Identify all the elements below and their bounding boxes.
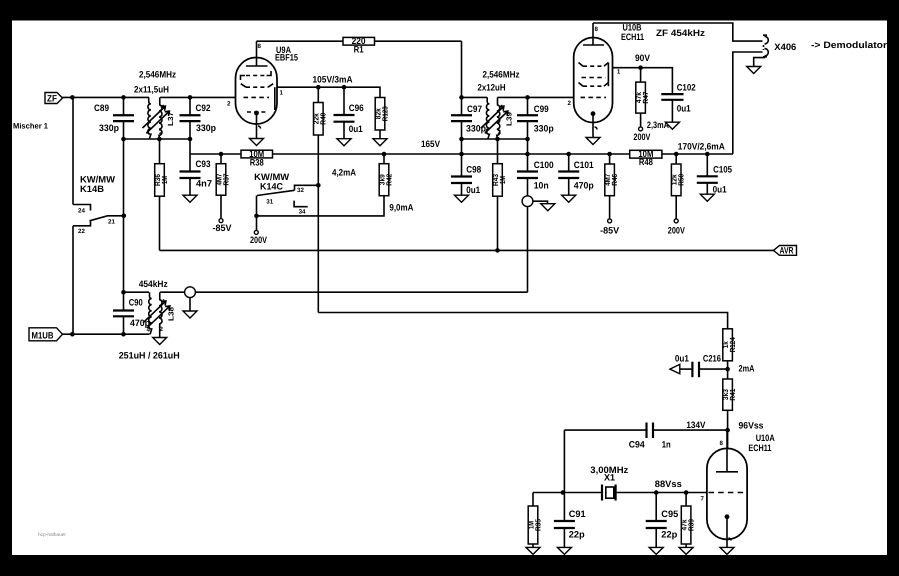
svg-text:8: 8 <box>258 43 262 50</box>
svg-text:C90: C90 <box>129 297 143 307</box>
transformer L37 2x11,5uH <box>143 97 176 139</box>
label 9,0mA <box>389 203 413 213</box>
ground under C101 <box>562 195 576 202</box>
wire: T1 bottom rail y=139 <box>124 138 191 140</box>
wire: U10B anode wire y=23 <box>593 23 763 41</box>
svg-text:C89: C89 <box>94 103 109 113</box>
resistor R42 3k9 <box>377 154 393 196</box>
svg-text:R47: R47 <box>641 92 650 104</box>
node junction M1UB/K14B <box>70 332 75 337</box>
ground at T3 testpoint <box>183 311 197 318</box>
wire: R38 wire from T1 <box>190 153 241 155</box>
svg-text:90V: 90V <box>635 53 651 63</box>
svg-text:0u1: 0u1 <box>675 354 689 364</box>
watermark hcp-halbauer <box>38 532 66 538</box>
svg-text:170V/2,6mA: 170V/2,6mA <box>678 142 725 152</box>
svg-text:C94: C94 <box>629 440 646 450</box>
svg-text:200V: 200V <box>668 225 686 235</box>
svg-text:1: 1 <box>162 104 166 111</box>
wire: M1UB rail y=334.2 <box>63 333 150 335</box>
wire: AVR rail y=250.4 <box>160 249 774 251</box>
resistor R39 47k <box>679 493 695 548</box>
svg-text:2: 2 <box>160 326 164 333</box>
svg-text:X406: X406 <box>774 42 796 52</box>
svg-text:ZF: ZF <box>47 93 57 103</box>
node junction T1 bottom right <box>188 137 193 142</box>
svg-text:330p: 330p <box>99 123 119 133</box>
terminal 200V under R47 <box>633 127 651 142</box>
svg-text:C105: C105 <box>713 165 732 175</box>
ground under T3 secondary <box>153 338 167 345</box>
svg-text:1: 1 <box>162 299 166 306</box>
terminal 200V under R50 <box>668 219 686 236</box>
svg-text:L39: L39 <box>505 112 514 126</box>
svg-text:R46: R46 <box>610 174 619 186</box>
wire: ZF to transformer T1 top rail y=97.4 <box>63 96 236 98</box>
capacitor C98 0u1 <box>451 164 481 195</box>
transformer L38 454kHz <box>143 292 176 337</box>
ground under C91 <box>557 547 571 554</box>
label -> Demodulator <box>811 40 887 50</box>
svg-text:4: 4 <box>485 130 489 137</box>
label 4,2mA <box>332 168 356 178</box>
svg-text:C102: C102 <box>677 83 696 93</box>
svg-text:K14B: K14B <box>80 184 104 194</box>
testpoint circle at T3 <box>185 287 196 311</box>
svg-text:R37: R37 <box>221 174 230 186</box>
node junction C89 top <box>121 95 126 100</box>
wire: 454kHz top rail y=292.2 <box>124 291 528 293</box>
capacitor C93 4n7 <box>180 154 213 195</box>
wire: U9A pin1 105V wire y=87.2 <box>277 87 380 97</box>
svg-text:-> Demodulator: -> Demodulator <box>811 40 887 50</box>
svg-text:X1: X1 <box>604 473 615 483</box>
svg-text:2,546MHz: 2,546MHz <box>483 70 520 80</box>
ground under U10A cathode <box>720 547 734 554</box>
node junction R47 top <box>638 65 643 70</box>
wire: X406 lower contact to 170V rail <box>733 52 763 154</box>
svg-text:C97: C97 <box>467 104 482 114</box>
capacitor C92 330p <box>180 103 217 133</box>
node junction R43 bottom on AVR rail <box>495 248 500 253</box>
node junction R46 top <box>607 152 612 157</box>
svg-text:C92: C92 <box>196 103 211 113</box>
svg-text:KW/MW: KW/MW <box>254 172 289 182</box>
svg-text:L38: L38 <box>167 307 176 321</box>
svg-text:8: 8 <box>595 26 599 33</box>
label 105V/3mA <box>313 75 353 85</box>
svg-text:32: 32 <box>297 187 304 194</box>
svg-text:ZF 454kHz: ZF 454kHz <box>656 28 705 38</box>
capacitor C101 470p <box>558 154 594 195</box>
svg-text:24: 24 <box>78 208 85 215</box>
svg-text:1M: 1M <box>498 176 507 184</box>
wire: 165V rail <box>273 153 734 155</box>
node junction C105 top <box>705 152 710 157</box>
resistor R37 4M7 <box>214 154 230 219</box>
node junction K14C 31 <box>254 214 259 219</box>
svg-text:C91: C91 <box>569 509 586 519</box>
svg-text:4: 4 <box>147 327 151 334</box>
svg-text:AVR: AVR <box>780 245 794 255</box>
resistor R43 1M <box>491 139 507 250</box>
switch K14C arm 31 <box>257 190 295 230</box>
flag M1UB <box>29 328 63 341</box>
svg-text:KW/MW: KW/MW <box>80 174 115 184</box>
label 2,3mA <box>647 120 669 130</box>
label U10B ECH11 <box>621 22 644 42</box>
capacitor C102 0u1 <box>661 83 695 123</box>
node junction K14C 32 tap <box>316 183 321 188</box>
node junction C100 on 165V rail <box>525 152 530 157</box>
svg-text:9,0mA: 9,0mA <box>389 203 413 213</box>
node junction C97 on 165V rail <box>459 152 464 157</box>
wire: C94 left leg down to oscillator line <box>563 430 565 492</box>
node junction T1 bottom left <box>121 137 126 142</box>
crystal X1 3,00MHz <box>602 473 616 501</box>
capacitor C90 470p <box>113 297 150 328</box>
ground under C98 <box>455 195 469 202</box>
svg-text:1M: 1M <box>160 176 169 184</box>
svg-text:200V: 200V <box>633 132 651 142</box>
resistor R48 10M <box>630 149 662 167</box>
resistor R41 3k3 <box>721 379 737 448</box>
svg-text:R38: R38 <box>250 157 264 167</box>
svg-text:0u1: 0u1 <box>713 185 727 195</box>
svg-text:251uH / 261uH: 251uH / 261uH <box>119 351 180 361</box>
svg-text:1: 1 <box>617 69 621 76</box>
node junction T1 bottom coil <box>157 137 162 142</box>
svg-text:R48: R48 <box>639 157 653 167</box>
node junction 134V <box>725 428 730 433</box>
svg-text:2x11,5uH: 2x11,5uH <box>134 85 169 95</box>
svg-text:EBF15: EBF15 <box>275 53 298 63</box>
resistor R1 220 <box>343 36 375 54</box>
wire: 88Vss oscillator line y=492.5 <box>533 492 707 494</box>
wire: C100 testpoint down to 454kHz rail <box>527 207 529 293</box>
svg-text:105V/3mA: 105V/3mA <box>313 75 353 85</box>
svg-text:ECH11: ECH11 <box>748 443 771 453</box>
svg-text:10n: 10n <box>534 181 549 191</box>
svg-text:21: 21 <box>108 219 115 226</box>
capacitor C216 0u1 <box>675 354 728 378</box>
svg-text:22p: 22p <box>569 530 585 540</box>
svg-text:2: 2 <box>227 101 231 108</box>
svg-text:8: 8 <box>720 440 724 447</box>
wire: 9,0mA wire y=215.9 <box>257 196 385 216</box>
svg-text:R39: R39 <box>686 519 695 531</box>
resistor R46 4M7 <box>603 154 619 219</box>
ground under U10B cathode <box>586 138 600 145</box>
node junction C96 top <box>342 85 347 90</box>
svg-text:C101: C101 <box>574 160 594 170</box>
svg-text:454kHz: 454kHz <box>139 279 168 289</box>
svg-text:0u1: 0u1 <box>677 104 691 114</box>
svg-text:2: 2 <box>498 129 502 136</box>
switch K14B contact 24 <box>73 205 91 215</box>
capacitor C94 1n <box>564 423 727 450</box>
terminal -85V under R46 <box>600 219 620 236</box>
ground X406 <box>747 67 761 74</box>
tube U10A ECH11 <box>701 430 748 547</box>
wire: C89/C90 column x=123.5 <box>123 97 125 334</box>
node junction R40 top <box>316 85 321 90</box>
svg-text:R123: R123 <box>380 106 389 121</box>
svg-text:C98: C98 <box>466 164 481 174</box>
capacitor C97 330p <box>451 104 486 134</box>
svg-text:R41: R41 <box>728 389 737 401</box>
svg-text:22p: 22p <box>661 530 677 540</box>
flag ZF <box>45 93 63 104</box>
node junction R50 top <box>674 152 679 157</box>
node junction C92 top <box>188 95 193 100</box>
svg-text:R42: R42 <box>384 174 393 186</box>
ground under C96 <box>337 139 351 146</box>
svg-text:M1UB: M1UB <box>32 330 54 340</box>
wire: C97 column x=461.5 <box>461 41 463 195</box>
testpoint circle under C100 <box>522 196 547 207</box>
label 2,546MHz <box>139 70 176 80</box>
label U9A EBF15 <box>275 45 298 63</box>
tube U9A EBF15 <box>227 41 284 138</box>
node junction C216 / R41 <box>725 367 730 372</box>
wire: X406 lower contact to ground <box>754 57 765 67</box>
svg-text:Mischer 1: Mischer 1 <box>13 122 49 131</box>
switch K14B contact 22 and arm <box>73 216 124 235</box>
label 251uH / 261uH <box>119 351 180 361</box>
node junction T2 bottom right <box>525 137 530 142</box>
ground under C93 <box>183 195 197 202</box>
svg-text:2: 2 <box>568 100 572 107</box>
svg-text:L37: L37 <box>166 112 175 126</box>
tube U10B ECH11 <box>568 23 621 138</box>
wire: K14B left vertical x=73 <box>72 97 74 334</box>
terminal -85V under R37 <box>213 219 233 234</box>
svg-text:470p: 470p <box>574 181 594 191</box>
node junction ZF/K14B branch <box>70 95 75 100</box>
wire: T2 bottom rail y=139 <box>462 138 528 140</box>
svg-text:K14C: K14C <box>260 181 283 191</box>
svg-text:1: 1 <box>280 90 284 97</box>
resistor R123 82k <box>373 98 389 139</box>
svg-text:2x12uH: 2x12uH <box>478 83 506 93</box>
resistor R124 1k <box>721 329 737 379</box>
label ZF 454kHz <box>656 28 705 38</box>
svg-text:C96: C96 <box>349 103 364 113</box>
svg-text:31: 31 <box>266 198 273 205</box>
svg-text:ECH11: ECH11 <box>621 32 644 42</box>
resistor R36 1M <box>153 139 169 250</box>
svg-text:U10A: U10A <box>756 433 775 443</box>
node junction C90 top <box>121 290 126 295</box>
wire: C99 column x=527.5 <box>527 97 529 154</box>
svg-text:2,546MHz: 2,546MHz <box>139 70 176 80</box>
svg-text:C93: C93 <box>196 159 211 169</box>
svg-text:2,3mA: 2,3mA <box>647 120 669 130</box>
label 170V/2,6mA <box>678 142 725 152</box>
resistor R40 22k <box>312 87 328 312</box>
svg-text:34: 34 <box>299 209 306 216</box>
svg-text:1: 1 <box>500 104 504 111</box>
svg-text:0u1: 0u1 <box>466 185 480 195</box>
svg-text:C100: C100 <box>534 160 554 170</box>
label 2x11,5uH <box>134 85 169 95</box>
svg-text:2: 2 <box>159 129 163 136</box>
svg-text:7: 7 <box>701 496 705 503</box>
svg-text:R35: R35 <box>533 519 542 531</box>
switch K14C contact 32 wire to R40 column <box>295 185 319 194</box>
node junction C90 bottom <box>121 332 126 337</box>
resistor R35 1M <box>526 493 542 548</box>
ground under R35 <box>526 547 540 554</box>
label U10A ECH11 <box>748 433 775 453</box>
node junction C94/C91 on 88Vss line <box>561 490 566 495</box>
label 2,546MHz (T2) <box>483 70 520 80</box>
ground under C102 <box>665 122 679 129</box>
label 134V <box>686 420 706 430</box>
svg-text:134V: 134V <box>686 420 706 430</box>
svg-text:96Vss: 96Vss <box>739 421 764 431</box>
svg-text:C99: C99 <box>534 104 549 114</box>
label 96Vss <box>739 421 764 431</box>
wire: U9A anode to R1 to C97 column, y=41 <box>257 40 462 42</box>
svg-text:-85V: -85V <box>600 225 620 235</box>
node junction R42 top <box>382 152 387 157</box>
wire: U10B pin1 90V wire y=67.7 <box>613 68 673 94</box>
svg-text:200V: 200V <box>250 235 268 245</box>
label KW/MW K14B <box>80 174 115 194</box>
node junction T2 bottom left <box>459 137 464 142</box>
label KW/MW K14C <box>254 172 289 192</box>
input arrow at C216 <box>670 364 680 373</box>
label 88Vss <box>655 479 682 489</box>
node junction C99 top <box>525 95 530 100</box>
svg-text:330p: 330p <box>196 123 216 133</box>
node junction C101 top <box>566 152 571 157</box>
wire: R40 feed line to R124, y=312.5 <box>318 313 727 329</box>
transformer L39 2x12uH <box>481 97 514 139</box>
svg-text:hcp-halbauer: hcp-halbauer <box>38 532 66 538</box>
capacitor C89 330p <box>94 103 134 133</box>
capacitor C105 0u1 <box>697 154 732 195</box>
connector X406 <box>763 35 796 57</box>
node junction T2 bottom R43 <box>495 137 500 142</box>
node junction R39 on 88Vss line <box>684 490 689 495</box>
wire: C92 column x=190 <box>189 97 191 154</box>
flag AVR <box>774 245 797 255</box>
svg-text:1n: 1n <box>662 440 671 450</box>
label 2mA <box>739 364 755 374</box>
capacitor C95 22p <box>646 493 679 548</box>
wire: T2 top rail y=97.4 <box>462 96 574 98</box>
resistor R50 12k <box>670 154 686 219</box>
ground under C105 <box>700 194 714 201</box>
svg-text:88Vss: 88Vss <box>655 479 682 489</box>
capacitor C100 10n <box>517 154 554 196</box>
svg-text:R124: R124 <box>728 337 737 353</box>
label 3,00MHz <box>590 465 628 475</box>
svg-text:-85V: -85V <box>213 223 233 233</box>
label 2x12uH <box>478 83 506 93</box>
node junction C97 top <box>459 95 464 100</box>
label 90V <box>635 53 651 63</box>
svg-text:R40: R40 <box>319 113 328 125</box>
ground under U9A cathode <box>250 139 264 146</box>
capacitor C96 0u1 <box>334 87 364 139</box>
resistor R38 10M <box>241 149 273 167</box>
svg-text:22: 22 <box>78 228 85 235</box>
svg-text:4n7: 4n7 <box>196 179 212 189</box>
svg-text:0u1: 0u1 <box>349 124 363 134</box>
node junction R37 top <box>219 152 224 157</box>
svg-text:R50: R50 <box>677 174 686 186</box>
ground under R39 <box>679 547 693 554</box>
ground at C100 testpoint <box>541 204 555 211</box>
label Mischer 1 <box>13 122 49 131</box>
svg-text:4: 4 <box>146 130 150 137</box>
svg-text:4,2mA: 4,2mA <box>332 168 356 178</box>
svg-text:165V: 165V <box>421 139 441 149</box>
svg-text:C216: C216 <box>703 354 721 364</box>
node junction K14B 21 <box>122 214 127 219</box>
label 165V <box>421 139 441 149</box>
terminal 200V under K14C <box>250 230 268 245</box>
ground under R123 <box>373 139 387 146</box>
svg-text:330p: 330p <box>534 124 554 134</box>
svg-text:R1: R1 <box>354 45 364 55</box>
svg-text:2mA: 2mA <box>739 364 755 374</box>
switch K14C contact 34 <box>294 201 308 216</box>
ground under C95 <box>649 547 663 554</box>
capacitor C99 330p <box>517 104 554 134</box>
svg-text:C95: C95 <box>661 509 678 519</box>
node junction C95 on 88Vss line <box>654 490 659 495</box>
resistor R47 47k <box>634 68 650 127</box>
capacitor C91 22p <box>554 493 586 548</box>
label 454kHz <box>139 279 168 289</box>
